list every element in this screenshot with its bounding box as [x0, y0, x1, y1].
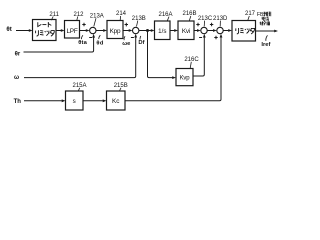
block 216B Kvi: [178, 21, 194, 40]
tick leader omega-e: [123, 36, 126, 40]
leader line for 213C: [203, 21, 205, 27]
block 214 Kpp: [107, 21, 123, 39]
wire Kvi to summing junction 213C with arrowhead: [194, 30, 197, 32]
svg-text:Kc: Kc: [112, 98, 120, 105]
leader line for 215B: [120, 88, 122, 91]
label omega input: [14, 75, 19, 81]
svg-text:217: 217: [245, 11, 256, 17]
svg-text:θt: θt: [6, 26, 11, 33]
wire 211 to LPF with arrowhead: [56, 30, 61, 32]
minus sign at 213C lower input: [199, 37, 202, 39]
svg-text:213C: 213C: [198, 16, 213, 22]
minus sign at 213B feedback: [131, 37, 134, 39]
svg-text:Iref: Iref: [261, 42, 270, 48]
leader line for 216C: [190, 62, 191, 68]
label Df: [138, 40, 144, 46]
wire 1/s to Kvi with arrowhead: [170, 30, 174, 32]
plus sign at 213D lower input: [214, 36, 217, 40]
leader line for 217: [248, 16, 250, 20]
plus sign at 213C input: [196, 23, 199, 27]
label 215B: [114, 83, 128, 89]
wire s to Kc with arrowhead: [83, 100, 103, 102]
node junction dot: [146, 29, 149, 32]
label 213C: [198, 16, 213, 22]
leader line for 213A: [94, 18, 96, 26]
block 217 limiter: [232, 21, 256, 42]
summing junction 213A: [90, 27, 96, 33]
svg-text:θr: θr: [15, 51, 21, 57]
svg-text:216B: 216B: [182, 11, 196, 17]
svg-text:s: s: [73, 98, 76, 105]
svg-text:216C: 216C: [184, 57, 199, 63]
text rimitta (katakana) line2 of 211: [36, 30, 55, 36]
block 215B Kc: [107, 91, 126, 110]
wire Kc output to 213D with arrowhead: [125, 37, 221, 101]
label 216C: [184, 57, 199, 63]
text rimitta (katakana) in 217: [236, 28, 255, 34]
leader line for 212: [77, 17, 78, 21]
label 213A: [90, 13, 104, 19]
block 212 LPF: [65, 21, 80, 39]
wire theta-r feedback into 213A with arrowhead: [24, 37, 94, 52]
leader line for 211: [51, 17, 53, 21]
label 217: [245, 11, 256, 17]
block 215A differentiator s: [66, 91, 84, 110]
svg-text:212: 212: [73, 12, 84, 18]
minus sign at 213A feedback: [89, 37, 92, 39]
wire 213D to limiter 217 with arrowhead: [223, 30, 228, 32]
svg-text:Kvp: Kvp: [180, 76, 191, 82]
svg-text:214: 214: [116, 11, 127, 17]
plus sign at 213D input: [210, 23, 213, 27]
svg-text:ωe: ωe: [122, 41, 131, 47]
label 215A: [72, 83, 86, 89]
label 216B: [182, 11, 196, 17]
summing junction 213D: [217, 27, 223, 33]
leader line for 216A: [167, 17, 169, 21]
label Iref: [261, 42, 270, 48]
plus sign at 213B input: [125, 23, 128, 27]
label theta-r input: [15, 51, 21, 57]
wire 213C to 213D with arrowhead: [207, 30, 213, 32]
leader line for 215A: [78, 88, 80, 91]
svg-text:Df: Df: [138, 40, 144, 46]
block 211 rate limiter: [33, 20, 57, 41]
svg-text:213A: 213A: [90, 13, 104, 19]
svg-text:ω: ω: [14, 75, 19, 81]
leader line for 216B: [189, 16, 191, 21]
wire LPF to summing junction 213A with arrowhead: [80, 30, 87, 32]
svg-text:1/s: 1/s: [158, 28, 166, 35]
svg-text:LPF: LPF: [66, 28, 77, 35]
label theta-d: [96, 40, 103, 46]
label FB seigyo denryu shireichi (kanji): [257, 12, 271, 26]
block 216C Kvp: [176, 69, 193, 86]
svg-text:Kpp: Kpp: [110, 28, 121, 35]
label 211: [49, 12, 59, 18]
label theta-t input: [6, 26, 11, 33]
svg-text:213B: 213B: [132, 16, 146, 22]
svg-text:θd: θd: [96, 40, 103, 46]
leader line for 214: [119, 16, 121, 20]
label omega-e: [122, 41, 131, 47]
label theta-ta: [78, 40, 87, 46]
summing junction 213C: [201, 27, 207, 33]
output wire Iref with arrowhead: [256, 30, 275, 32]
tick leader Iref: [266, 35, 268, 40]
label 216A: [158, 12, 172, 18]
svg-text:Th: Th: [14, 99, 22, 105]
label 213D: [213, 16, 228, 22]
wire Th to block s with arrowhead: [24, 100, 62, 102]
svg-text:Kvi: Kvi: [182, 28, 190, 35]
leader line for 213B: [137, 21, 138, 27]
label 213B: [132, 16, 146, 22]
wire 213A to Kpp with arrowhead: [96, 30, 103, 32]
wire omega feedback into 213B with arrowhead: [24, 37, 136, 77]
svg-text:216A: 216A: [158, 12, 172, 18]
tick leader theta-ta: [81, 35, 82, 39]
wire Kvp output to 213C with arrowhead: [193, 37, 204, 76]
wire 213B to 1/s with node dot and arrowhead: [139, 30, 151, 32]
label Th input: [14, 99, 22, 105]
plus sign at 213A input: [82, 23, 85, 27]
svg-text:θta: θta: [78, 40, 87, 46]
wire theta-t to rate limiter with arrowhead: [16, 30, 29, 32]
block 216A integrator 1/s: [155, 21, 171, 40]
label 214: [116, 11, 127, 17]
tick leader Df: [139, 36, 142, 40]
svg-text:211: 211: [49, 12, 59, 18]
summing junction 213B: [133, 27, 139, 33]
wire branch node to Kvp with arrowhead: [148, 31, 173, 78]
label 212: [73, 12, 84, 18]
leader line for 213D: [219, 21, 221, 27]
text re-to (katakana) line1 of 211: [38, 22, 52, 27]
wire Kpp to summing junction 213B with arrowhead: [123, 30, 129, 32]
tick leader theta-d: [99, 35, 101, 39]
